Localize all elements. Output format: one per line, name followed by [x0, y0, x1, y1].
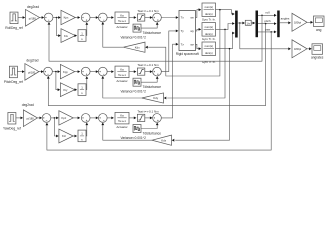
- wire Kdx to rate sum row 1: [101, 22, 123, 47]
- wire integrator to demux: [251, 22, 255, 25]
- svg-text:Kdx: Kdx: [135, 45, 140, 49]
- integrator 1/s row 3 (yaw): [78, 130, 86, 142]
- svg-text:Kpx: Kpx: [64, 16, 69, 20]
- wire demux roll to mux2: [258, 11, 277, 17]
- svg-text:ang: ang: [316, 28, 322, 32]
- svg-text:Kpy: Kpy: [63, 70, 68, 74]
- wire Kdz to rate sum row 3: [101, 123, 152, 141]
- PI sum junction row 2 (pitch): [81, 67, 90, 76]
- svg-text:Actuator: Actuator: [116, 25, 127, 29]
- svg-text:Kdz: Kdz: [161, 138, 166, 142]
- scope angrates: [311, 44, 324, 60]
- scope ang: [314, 16, 325, 32]
- wire Kp gain to PI sum row 2 (pitch): [75, 70, 81, 73]
- wire yaw angle feedback to error sum row 3: [46, 32, 272, 150]
- wire actuator to saturation row 2 (pitch): [129, 70, 136, 73]
- wire integrator up to PI sum row 3 (yaw): [85, 123, 88, 136]
- wire gain to scope ang: [307, 21, 313, 24]
- subsystem Rigid spacecraft: [176, 11, 199, 57]
- svg-text:num(s): num(s): [205, 25, 213, 29]
- wire spacecraft wx to gyro 1: [196, 8, 202, 17]
- transfer fn gyro 3 (Gyro Tr. fn.): [202, 42, 216, 64]
- wire demux yaw to mux2: [258, 27, 277, 33]
- wire mux to integrator 1/s: [238, 22, 245, 25]
- gain 180/pi (rates): [292, 40, 307, 58]
- svg-text:pitch: pitch: [264, 19, 271, 23]
- svg-text:wz: wz: [190, 43, 194, 47]
- gain deg2rad (pi/180) row 3 (yaw): [22, 103, 38, 126]
- svg-text:den(s): den(s): [205, 12, 213, 16]
- wire Kdy to rate sum row 2: [101, 76, 141, 98]
- wire deg2rad to error sum row 3 (yaw): [37, 117, 42, 120]
- actuator transfer fn Ka/(Ta.s+1) row 2 (pitch): [115, 66, 129, 83]
- svg-text:Kix: Kix: [64, 34, 68, 38]
- gain Kiz row 3 (yaw): [59, 129, 73, 143]
- error sum junction row 1 (roll): [44, 13, 53, 22]
- svg-text:Tx: Tx: [181, 16, 185, 20]
- svg-text:num(s): num(s): [205, 44, 213, 48]
- wire saturation to disturbance sum row 3 (yaw): [145, 117, 153, 120]
- saturation Tsat row 3 (yaw): [137, 109, 159, 121]
- svg-text:YawDeg_ref: YawDeg_ref: [3, 126, 21, 130]
- svg-text:Kdy: Kdy: [153, 96, 158, 100]
- PI sum junction row 1 (roll): [81, 13, 90, 22]
- wire Kp gain to PI sum row 1 (roll): [75, 16, 80, 19]
- svg-text:Ty: Ty: [181, 29, 185, 33]
- PI sum junction row 3 (yaw): [81, 114, 90, 123]
- svg-text:Ta.s+1: Ta.s+1: [118, 119, 126, 123]
- svg-text:Variance=0.001^2: Variance=0.001^2: [120, 90, 146, 94]
- gain Kdz (yaw rate feedback): [152, 135, 172, 145]
- svg-text:Gyro Tr. fn.: Gyro Tr. fn.: [202, 60, 216, 64]
- wire angles to gain 180/pi: [280, 17, 291, 25]
- gain Kdy (pitch rate feedback): [142, 93, 164, 103]
- wire spacecraft wy to gyro 2: [196, 28, 202, 31]
- gain 180/pi (angles): [292, 13, 307, 31]
- wire PI sum to rate sum row 3 (yaw): [90, 117, 98, 120]
- svg-text:Ka: Ka: [120, 13, 124, 17]
- gain Kix row 1 (roll): [61, 29, 75, 43]
- svg-text:pi/180: pi/180: [28, 70, 36, 74]
- error sum junction row 2 (pitch): [44, 67, 53, 76]
- wire step to deg2rad gain row 3 (yaw): [16, 117, 23, 120]
- wire rate sum to actuator row 2 (pitch): [107, 70, 114, 73]
- svg-text:Rigid spacecraft: Rigid spacecraft: [176, 52, 199, 56]
- wire branch down to Ki gain row 1 (roll): [57, 18, 61, 37]
- svg-text:wy: wy: [190, 29, 194, 33]
- wire error sum to Kp gain row 1 (roll): [53, 16, 61, 19]
- wire saturation to disturbance sum row 1 (roll): [145, 16, 153, 19]
- gain Kpy row 2 (pitch): [60, 64, 74, 78]
- wire roll angle feedback to error sum row 1: [48, 15, 262, 61]
- gain Kdx (roll rate feedback): [123, 42, 145, 52]
- svg-text:wx: wx: [190, 16, 194, 20]
- saturation Tsat row 2 (pitch): [137, 63, 159, 75]
- svg-text:Tz: Tz: [181, 43, 185, 47]
- wire Ki gain to integrator row 3 (yaw): [73, 135, 77, 138]
- svg-text:deg2rad: deg2rad: [26, 58, 38, 62]
- wire Kp gain to PI sum row 3 (yaw): [73, 117, 80, 120]
- wire rate sum to actuator row 1 (roll): [107, 16, 114, 19]
- wire yaw rate branch down to Kdz: [172, 49, 230, 142]
- integrator 1/s row 2 (pitch): [78, 84, 86, 96]
- wire noise source up to disturbance sum row 1 (roll): [141, 22, 159, 28]
- step source RollDeg_ref row 1 (roll): [5, 12, 22, 30]
- gain deg2rad (pi/180) row 2 (pitch): [25, 58, 39, 80]
- noise source Tdisturbance row 3 (yaw): [120, 125, 161, 140]
- svg-text:Ka: Ka: [120, 67, 124, 71]
- actuator transfer fn Ka/(Ta.s+1) row 3 (yaw): [115, 112, 129, 129]
- integrator 1/s (rates to angles): [245, 20, 251, 25]
- wire noise source up to disturbance sum row 3 (yaw): [141, 123, 159, 129]
- svg-text:roll: roll: [265, 11, 269, 15]
- integrator 1/s row 1 (roll): [78, 30, 86, 42]
- gain Kpz row 3 (yaw): [59, 111, 73, 125]
- wire disturbance sum to spacecraft Tx (row 1): [161, 16, 178, 19]
- svg-text:Tsat t=+-0.1 Nm: Tsat t=+-0.1 Nm: [137, 109, 159, 113]
- wire gyro 2 to mux: [216, 22, 235, 30]
- wire step to deg2rad gain row 1 (roll): [18, 16, 25, 19]
- mux2 angles (3-to-1): [277, 11, 280, 38]
- gain Kiy row 2 (pitch): [60, 83, 74, 97]
- wire pitch rate branch down to Kdy: [164, 29, 225, 99]
- rate feedback sum junction row 2 (pitch): [98, 67, 107, 76]
- svg-text:Actuator: Actuator: [116, 79, 127, 83]
- wire deg2rad to error sum row 1 (roll): [40, 16, 45, 19]
- svg-text:Gyro Tr. fn.: Gyro Tr. fn.: [202, 37, 216, 41]
- disturbance sum junction row 1 (roll): [153, 13, 162, 22]
- wire rate sum to actuator row 3 (yaw): [107, 117, 114, 120]
- wire branch down to Ki gain row 3 (yaw): [54, 118, 58, 138]
- svg-text:Gyro Tr. fn.: Gyro Tr. fn.: [202, 17, 216, 21]
- gain deg2rad (pi/180) row 1 (roll): [26, 5, 40, 26]
- wire spacecraft wz to gyro 3: [196, 44, 202, 50]
- wire actuator to saturation row 3 (yaw): [129, 117, 136, 120]
- wire saturation to disturbance sum row 2 (pitch): [145, 70, 153, 73]
- svg-text:pi/180: pi/180: [27, 117, 35, 121]
- disturbance sum junction row 2 (pitch): [153, 67, 162, 76]
- svg-text:Ta.s+1: Ta.s+1: [118, 19, 126, 23]
- svg-text:Kiy: Kiy: [63, 88, 67, 92]
- svg-text:deg2rad: deg2rad: [22, 103, 34, 107]
- transfer fn gyro 1 (Gyro Tr. fn.): [202, 3, 216, 21]
- svg-text:Tsat t=+-0.1 Nm: Tsat t=+-0.1 Nm: [137, 63, 159, 67]
- wire disturbance sum to spacecraft Ty (row 2): [161, 30, 178, 72]
- noise source Tdisturbance row 1 (roll): [120, 24, 161, 39]
- svg-text:angles: angles: [281, 17, 290, 21]
- gain Kpx row 1 (roll): [61, 10, 75, 24]
- svg-text:Ta.s+1: Ta.s+1: [118, 73, 126, 77]
- svg-text:180/pi: 180/pi: [294, 47, 301, 51]
- saturation Tsat row 1 (roll): [137, 9, 159, 21]
- svg-text:Tsat t=+-0.1 Nm: Tsat t=+-0.1 Nm: [137, 9, 159, 13]
- wire PI sum to rate sum row 2 (pitch): [90, 70, 98, 73]
- wire integrator up to PI sum row 1 (roll): [85, 22, 88, 35]
- wire branch down to Ki gain row 2 (pitch): [56, 72, 60, 92]
- actuator transfer fn Ka/(Ta.s+1) row 1 (roll): [115, 12, 129, 29]
- wire PI sum to rate sum row 1 (roll): [90, 16, 98, 19]
- svg-text:180/pi: 180/pi: [294, 20, 301, 24]
- svg-text:Kpz: Kpz: [61, 116, 66, 120]
- svg-text:RollDeg_ref: RollDeg_ref: [5, 26, 22, 30]
- wire error sum to Kp gain row 3 (yaw): [51, 117, 59, 120]
- wire deg2rad to error sum row 2 (pitch): [39, 70, 44, 73]
- noise source Tdisturbance row 2 (pitch): [120, 78, 161, 93]
- svg-text:den(s): den(s): [205, 51, 213, 55]
- mux rates (3-to-1): [235, 11, 238, 38]
- demux angles (1-to-3): [256, 11, 259, 38]
- wire step to deg2rad gain row 2 (pitch): [17, 70, 24, 73]
- svg-text:deg2rad: deg2rad: [27, 5, 39, 9]
- svg-text:num(s): num(s): [205, 5, 213, 9]
- wire integrator up to PI sum row 2 (pitch): [85, 76, 88, 89]
- wire actuator to saturation row 1 (roll): [129, 16, 136, 19]
- step source PitchDeg_ref row 2 (pitch): [4, 66, 23, 84]
- wire rates tap down to gain 180/pi (rates): [240, 23, 291, 50]
- svg-text:PitchDeg_ref: PitchDeg_ref: [4, 80, 23, 84]
- wire disturbance sum to spacecraft Tz (row 3): [161, 43, 178, 118]
- svg-text:Variance=0.001^2: Variance=0.001^2: [120, 136, 146, 140]
- wire roll rate branch down and around to Kdx: [145, 10, 220, 76]
- step source YawDeg_ref row 3 (yaw): [3, 113, 21, 131]
- svg-text:pi/180: pi/180: [29, 16, 37, 20]
- wire noise source up to disturbance sum row 2 (pitch): [141, 76, 159, 82]
- wire pitch angle feedback to error sum row 2: [47, 24, 266, 106]
- error sum junction row 3 (yaw): [42, 114, 51, 123]
- wire Ki gain to integrator row 1 (roll): [75, 34, 78, 37]
- rate feedback sum junction row 3 (yaw): [98, 114, 107, 123]
- disturbance sum junction row 3 (yaw): [153, 114, 162, 123]
- svg-text:den(s): den(s): [205, 32, 213, 36]
- svg-text:Actuator: Actuator: [116, 125, 127, 129]
- svg-text:angrates: angrates: [311, 56, 324, 60]
- svg-text:Kiz: Kiz: [62, 134, 66, 138]
- wire gain to scope angrates: [307, 47, 312, 50]
- svg-text:Ka: Ka: [120, 114, 124, 118]
- transfer fn gyro 2 (Gyro Tr. fn.): [202, 23, 216, 41]
- wire gyro 3 to mux: [216, 32, 235, 50]
- wire error sum to Kp gain row 2 (pitch): [52, 70, 60, 73]
- wire demux pitch to mux2: [258, 19, 277, 25]
- wire gyro 1 to mux: [216, 9, 235, 16]
- rate feedback sum junction row 1 (roll): [98, 13, 107, 22]
- svg-text:Variance=0.001^2: Variance=0.001^2: [120, 35, 146, 39]
- wire Ki gain to integrator row 2 (pitch): [75, 88, 78, 91]
